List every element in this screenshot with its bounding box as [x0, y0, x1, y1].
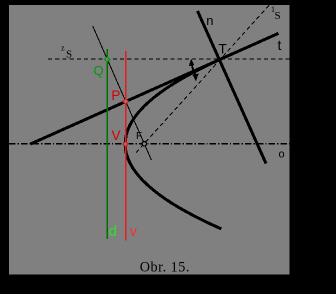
svg-text:T: T — [219, 41, 227, 56]
svg-text:V: V — [112, 128, 121, 143]
axis o (dash-dot horizontal) — [9, 143, 290, 145]
gray drawing panel — [9, 5, 290, 275]
point Q (diamond, green) — [105, 57, 110, 62]
green directrix d — [106, 49, 108, 239]
dashed diagonal through F and T (focal ray to 1S) — [136, 5, 270, 153]
point V vertex (diamond, red) — [123, 141, 128, 146]
svg-text:z: z — [61, 44, 65, 53]
tangent t — [31, 33, 279, 144]
svg-text:n: n — [206, 13, 213, 28]
svg-text:S: S — [66, 49, 72, 61]
svg-text:Q: Q — [94, 63, 104, 78]
svg-text:o: o — [279, 149, 285, 161]
svg-text:v: v — [130, 224, 138, 240]
thin line Q-P-F extended (perpendicular from F to t) — [93, 26, 152, 160]
svg-text:F: F — [136, 131, 142, 142]
svg-text:S: S — [275, 10, 281, 22]
svg-text:P: P — [111, 88, 120, 103]
normal n — [198, 11, 267, 164]
svg-text:t: t — [278, 37, 282, 53]
svg-text:d: d — [109, 224, 117, 240]
dashed horizontal through T (diameter direction) — [48, 58, 290, 60]
point P (diamond, red) — [123, 99, 128, 104]
red vertex tangent v — [125, 51, 127, 241]
focus F (small circle) — [142, 142, 146, 146]
angle marker arc with arrows at T — [189, 60, 198, 81]
svg-text:Obr. 15.: Obr. 15. — [140, 259, 190, 275]
parabola — [125, 59, 221, 229]
